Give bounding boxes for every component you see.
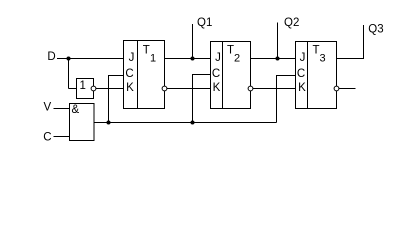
- svg-text:J: J: [215, 52, 221, 64]
- wire C input: [54, 136, 71, 138]
- flip-flop T1 label column divider: [137, 41, 139, 109]
- wire Q2 from T2 to J3: [251, 58, 296, 60]
- svg-text:J: J: [300, 52, 306, 64]
- svg-text:Q1: Q1: [197, 17, 212, 29]
- svg-text:J: J: [129, 52, 135, 64]
- wire V input: [54, 108, 70, 110]
- svg-text:V: V: [44, 102, 52, 114]
- svg-text:K: K: [126, 82, 134, 94]
- svg-text:1: 1: [150, 53, 156, 65]
- wire clock riser to C3: [277, 76, 296, 123]
- T1 inverted output bubble: [162, 86, 167, 91]
- wire clock riser to C2: [193, 75, 211, 123]
- svg-text:Q3: Q3: [368, 24, 383, 36]
- wire T3 inverted output stub: [339, 88, 356, 90]
- wire Q1 from T1 to J2: [165, 58, 211, 60]
- flip-flop T2 box: [211, 42, 251, 109]
- svg-text:T: T: [313, 45, 320, 57]
- wire clock line from AND output: [94, 122, 277, 124]
- svg-text:D: D: [47, 51, 55, 63]
- flip-flop T3 box: [296, 42, 337, 109]
- AND gate U2 box: [70, 104, 95, 141]
- svg-text:K: K: [298, 82, 306, 94]
- svg-text:1: 1: [80, 80, 86, 92]
- wire D input to J1: [57, 58, 124, 60]
- svg-text:3: 3: [320, 53, 326, 65]
- wire T1 inverted output to K2: [167, 88, 211, 90]
- wire inverter output to K1: [96, 88, 124, 90]
- svg-text:C: C: [297, 68, 305, 80]
- junction Q1 node: [191, 57, 195, 61]
- flip-flop T1 box: [124, 41, 165, 109]
- svg-text:C: C: [43, 132, 51, 144]
- T3 inverted output bubble: [334, 86, 339, 91]
- wire Q3 output: [337, 25, 364, 59]
- junction Q2 node: [276, 57, 280, 61]
- T2 inverted output bubble: [248, 86, 253, 91]
- junction D node: [67, 57, 71, 61]
- svg-text:K: K: [213, 82, 221, 94]
- svg-text:C: C: [212, 68, 220, 80]
- wire Q1 riser: [192, 24, 194, 59]
- inverter U1 box: [77, 79, 94, 99]
- wire inverter input: [69, 88, 77, 90]
- svg-text:2: 2: [234, 53, 240, 65]
- flip-flop T3 label column divider: [307, 42, 309, 109]
- svg-text:T: T: [143, 45, 150, 57]
- flip-flop T2 label column divider: [222, 42, 224, 109]
- wire D drop to inverter: [68, 59, 70, 89]
- wire clock riser to C1: [109, 76, 124, 123]
- svg-text:C: C: [125, 68, 133, 80]
- wire Q2 riser: [277, 23, 279, 59]
- junction clock at C1 riser: [107, 121, 111, 125]
- wire T2 inverted output to K3: [253, 88, 296, 90]
- svg-text:T: T: [227, 45, 234, 57]
- svg-text:&: &: [72, 104, 80, 116]
- svg-text:Q2: Q2: [284, 17, 299, 29]
- inverter U1 output bubble: [91, 86, 96, 91]
- junction clock at C2 riser: [191, 121, 195, 125]
